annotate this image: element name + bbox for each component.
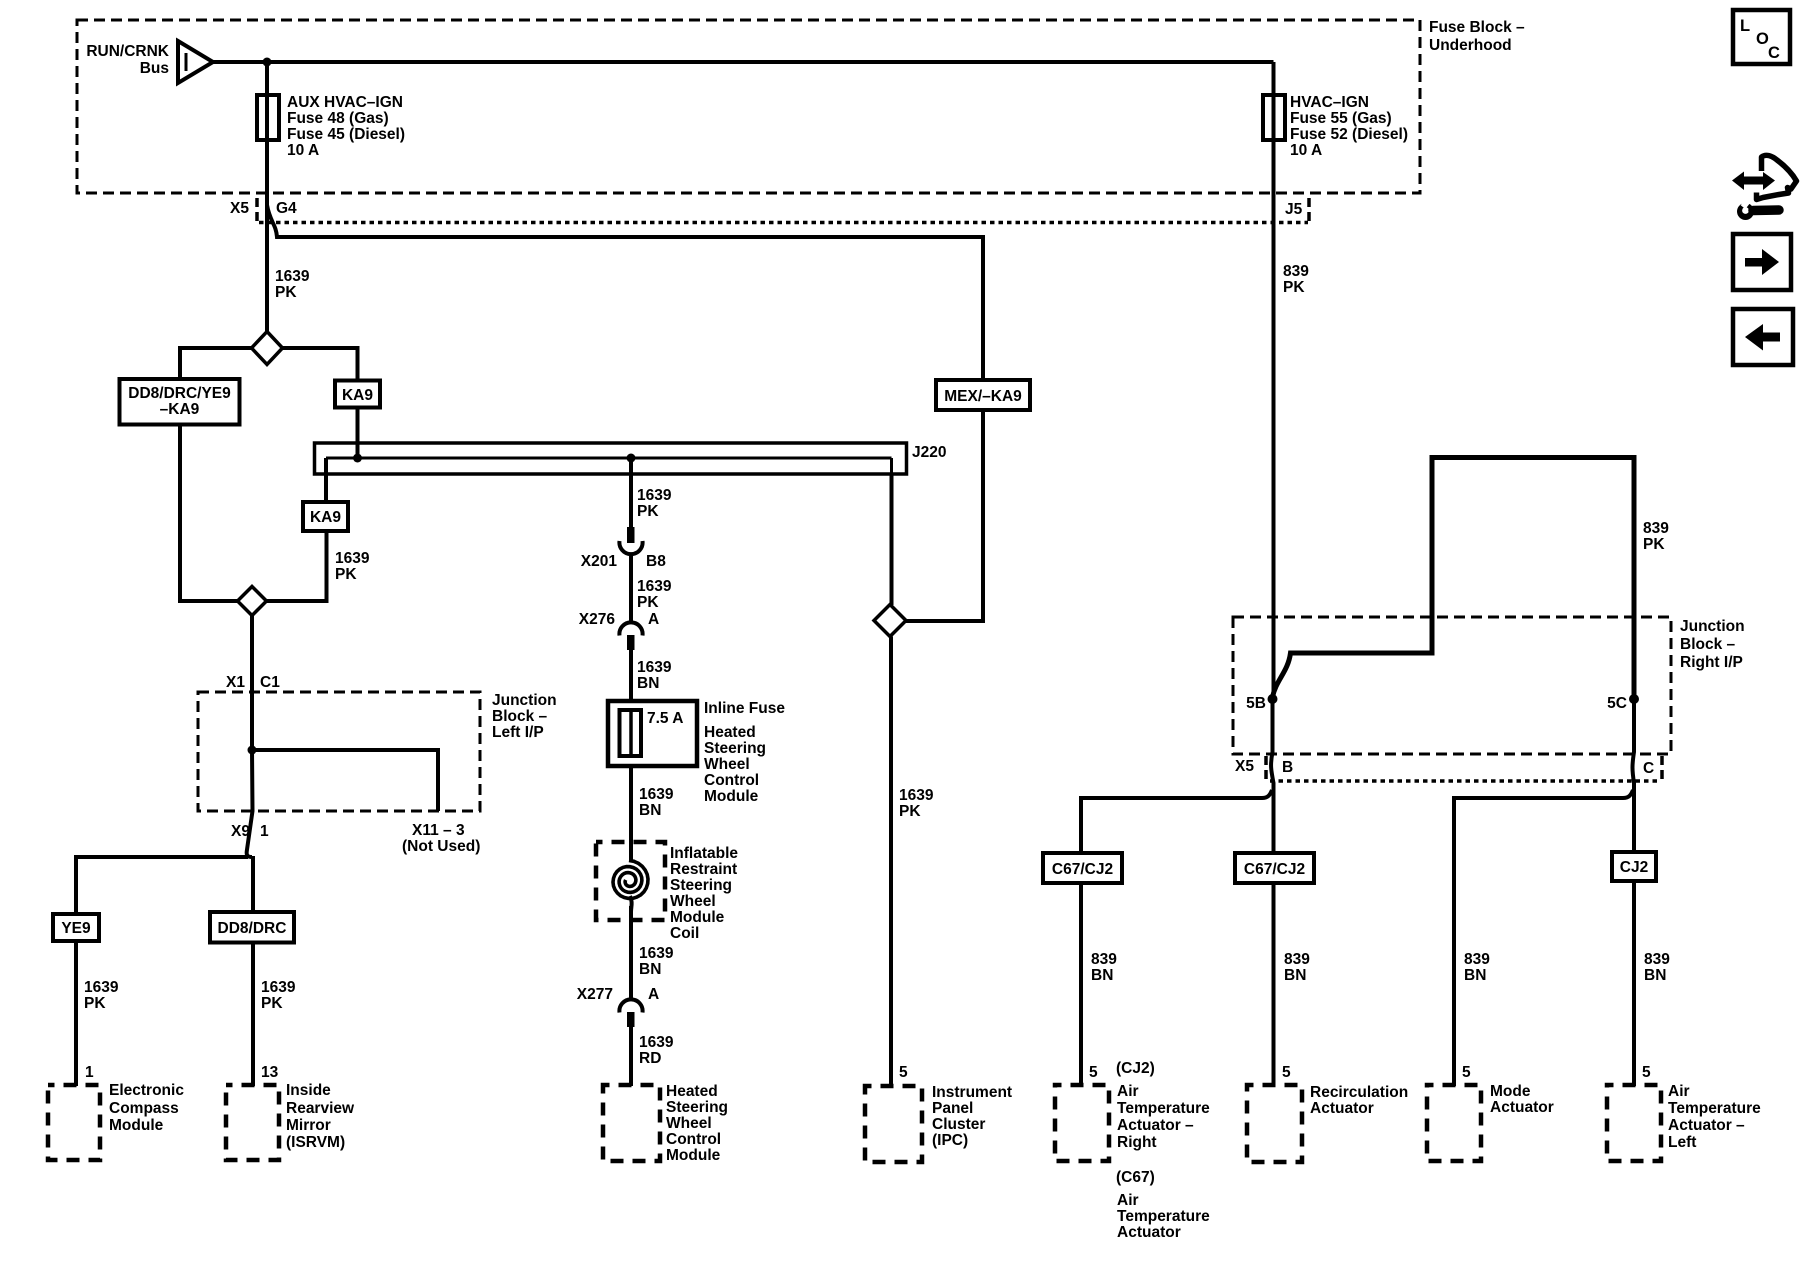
svg-text:PK: PK <box>335 566 357 583</box>
junction block - right I/P (dashed box) <box>1233 617 1745 754</box>
LOC nav box <box>1733 10 1790 64</box>
svg-text:PK: PK <box>637 594 659 611</box>
svg-text:Actuator: Actuator <box>1310 1100 1374 1117</box>
svg-text:X201: X201 <box>581 553 618 570</box>
svg-text:Right: Right <box>1117 1134 1157 1151</box>
option box YE9 <box>53 914 99 941</box>
svg-text:Fuse 52 (Diesel): Fuse 52 (Diesel) <box>1290 126 1408 143</box>
svg-text:DD8/DRC: DD8/DRC <box>218 920 287 937</box>
svg-text:CJ2: CJ2 <box>1620 859 1648 876</box>
connector J5 labels <box>1285 198 1309 223</box>
svg-text:C: C <box>1643 760 1654 777</box>
svg-text:1639: 1639 <box>639 945 674 962</box>
svg-text:C: C <box>1768 44 1780 62</box>
svg-text:G4: G4 <box>276 200 297 217</box>
svg-text:KA9: KA9 <box>310 509 341 526</box>
Electronic Compass Module (dashed box) <box>48 1082 184 1160</box>
svg-text:1639: 1639 <box>637 487 672 504</box>
svg-text:1: 1 <box>260 823 269 840</box>
svg-text:Module: Module <box>704 788 759 805</box>
svg-text:1639: 1639 <box>275 268 310 285</box>
svg-text:Control: Control <box>704 772 759 789</box>
splice diamond (IPC column) <box>874 605 906 637</box>
svg-text:BN: BN <box>1464 967 1486 984</box>
wire: 839 PK from J5 down to 5B <box>1274 140 1310 697</box>
wire: DD8 box down to lower splice <box>180 425 238 602</box>
node: bus tap junction <box>263 58 272 67</box>
svg-text:C67/CJ2: C67/CJ2 <box>1244 861 1305 878</box>
svg-text:1: 1 <box>85 1064 94 1081</box>
svg-text:–KA9: –KA9 <box>160 401 200 418</box>
svg-text:Actuator: Actuator <box>1490 1099 1554 1116</box>
svg-text:Inline Fuse: Inline Fuse <box>704 700 785 717</box>
svg-text:A: A <box>648 986 659 1003</box>
svg-text:Control: Control <box>666 1131 721 1148</box>
connector X5 / B / C labels <box>1235 756 1662 781</box>
wire: 1639 PK from J220 middle tap <box>631 458 672 528</box>
svg-text:5: 5 <box>1282 1064 1291 1081</box>
svg-text:Heated: Heated <box>704 724 756 741</box>
svg-text:Left: Left <box>1668 1134 1696 1151</box>
svg-text:YE9: YE9 <box>61 920 91 937</box>
svg-text:5: 5 <box>899 1064 908 1081</box>
svg-text:7.5 A: 7.5 A <box>647 710 683 727</box>
connector X276 A (female cup / male bar) <box>579 611 659 650</box>
svg-text:Inside: Inside <box>286 1082 331 1099</box>
svg-text:BN: BN <box>639 802 661 819</box>
wire: splice down to X1/C1 <box>250 616 254 751</box>
Instrument Panel Cluster (dashed box) <box>865 1084 1012 1162</box>
svg-text:839: 839 <box>1091 951 1117 968</box>
wire: diamond right branch to KA9 box <box>283 348 358 381</box>
svg-text:1639: 1639 <box>639 786 674 803</box>
svg-text:5: 5 <box>1462 1064 1471 1081</box>
svg-text:Recirculation: Recirculation <box>1310 1084 1408 1101</box>
wire: 839 BN to ATA-left <box>1634 881 1670 1086</box>
svg-text:Wheel: Wheel <box>670 893 716 910</box>
svg-text:5: 5 <box>1089 1064 1098 1081</box>
svg-text:Coil: Coil <box>670 925 699 942</box>
wire: diamond left branch to DD8 box <box>180 348 252 379</box>
svg-text:Mirror: Mirror <box>286 1117 331 1134</box>
svg-text:Module: Module <box>670 909 725 926</box>
svg-text:Air: Air <box>1117 1083 1139 1100</box>
svg-text:Instrument: Instrument <box>932 1084 1012 1101</box>
svg-text:Wheel: Wheel <box>704 756 750 773</box>
wire: 839 BN to mode actuator <box>1462 951 1490 1081</box>
Air Temperature Actuator - Left (dashed box) <box>1607 1083 1761 1161</box>
wire: 839 BN to ATA-right <box>1081 883 1117 1086</box>
svg-text:1639: 1639 <box>637 578 672 595</box>
svg-text:Restraint: Restraint <box>670 861 737 878</box>
wire: 1639 PK to IPC <box>891 637 934 1088</box>
svg-text:X1: X1 <box>226 674 245 691</box>
svg-text:Temperature: Temperature <box>1117 1100 1210 1117</box>
RUN/CRNK Bus source triangle <box>86 41 213 83</box>
svg-text:5: 5 <box>1642 1064 1651 1081</box>
fuse HVAC-IGN <box>1263 62 1408 159</box>
svg-text:X276: X276 <box>579 611 616 628</box>
fuse block - underhood (dashed box) <box>77 19 1525 193</box>
svg-text:X5: X5 <box>1235 758 1254 775</box>
svg-text:Steering: Steering <box>670 877 732 894</box>
svg-text:PK: PK <box>275 284 297 301</box>
svg-text:Module: Module <box>666 1147 721 1164</box>
wire: 1639 BN above inline fuse <box>631 650 672 710</box>
svg-text:A: A <box>648 611 659 628</box>
wire: G4 branch to MEX column <box>267 205 983 380</box>
svg-text:PK: PK <box>84 995 106 1012</box>
fuse AUX HVAC-IGN <box>257 94 405 159</box>
wire: 1639 PK A between X201 and X276 <box>631 554 672 622</box>
svg-text:Fuse 48 (Gas): Fuse 48 (Gas) <box>287 110 389 127</box>
svg-text:Right I/P: Right I/P <box>1680 654 1743 671</box>
wire: 1639 PK below G4 <box>267 208 310 331</box>
svg-text:Temperature: Temperature <box>1668 1100 1761 1117</box>
svg-text:BN: BN <box>1091 967 1113 984</box>
Inside Rearview Mirror (dashed box) <box>226 1082 355 1160</box>
option box C67/CJ2 (left) <box>1043 853 1122 883</box>
svg-text:PK: PK <box>637 503 659 520</box>
svg-text:L: L <box>1740 17 1750 35</box>
svg-text:839: 839 <box>1644 951 1670 968</box>
junction block - left I/P (dashed box) <box>198 692 557 811</box>
svg-text:Temperature: Temperature <box>1117 1208 1210 1225</box>
svg-text:Heated: Heated <box>666 1083 718 1100</box>
svg-text:1639: 1639 <box>899 787 934 804</box>
svg-text:X9: X9 <box>231 823 250 840</box>
svg-text:Fuse Block –: Fuse Block – <box>1429 19 1525 36</box>
wire: KA9 to J220 bus <box>356 408 360 459</box>
wire: main down through X9 <box>247 750 253 857</box>
svg-text:B: B <box>1282 759 1293 776</box>
svg-text:B8: B8 <box>646 553 666 570</box>
svg-text:Air: Air <box>1668 1083 1690 1100</box>
harness routing icon (double arrow, outline, wrench) <box>1732 155 1797 220</box>
option box DD8/DRC/YE9 -KA9 <box>120 379 240 425</box>
nav left-arrow box <box>1733 309 1793 365</box>
svg-text:PK: PK <box>899 803 921 820</box>
svg-text:Bus: Bus <box>140 60 169 77</box>
nav right-arrow box <box>1733 234 1791 290</box>
svg-text:839: 839 <box>1284 951 1310 968</box>
svg-text:Electronic: Electronic <box>109 1082 184 1099</box>
svg-text:Junction: Junction <box>492 692 557 709</box>
wire: 5B bridge over to 5C <box>1273 458 1635 698</box>
svg-text:BN: BN <box>639 961 661 978</box>
connector row dotted line (X5 plane) <box>259 221 1308 225</box>
svg-text:1639: 1639 <box>335 550 370 567</box>
svg-text:Actuator: Actuator <box>1117 1224 1181 1241</box>
svg-text:Junction: Junction <box>1680 618 1745 635</box>
node 5C <box>1629 694 1639 704</box>
node: KA9 wire to J220 <box>353 454 362 463</box>
svg-text:1639: 1639 <box>261 979 296 996</box>
svg-text:Module: Module <box>109 1117 164 1134</box>
svg-text:(C67): (C67) <box>1116 1169 1155 1186</box>
svg-text:(IPC): (IPC) <box>932 1132 968 1149</box>
svg-text:5B: 5B <box>1246 695 1266 712</box>
svg-text:BN: BN <box>1644 967 1666 984</box>
svg-text:Mode: Mode <box>1490 1083 1531 1100</box>
wire: 1639 PK YE9 to ECM <box>76 941 119 1086</box>
option box DD8/DRC <box>210 912 294 943</box>
J220 splice pack bus <box>315 443 947 474</box>
svg-text:C1: C1 <box>260 674 280 691</box>
svg-text:5C: 5C <box>1607 695 1627 712</box>
option box KA9 (lower) <box>303 502 348 531</box>
svg-text:13: 13 <box>261 1064 279 1081</box>
option box CJ2 <box>1612 852 1656 881</box>
wire: J220 right leg down to splice <box>890 474 894 605</box>
wire: left fuse drop <box>265 62 269 208</box>
svg-text:839: 839 <box>1464 951 1490 968</box>
svg-text:J5: J5 <box>1285 201 1303 218</box>
svg-text:C67/CJ2: C67/CJ2 <box>1052 861 1113 878</box>
svg-text:X11 – 3: X11 – 3 <box>412 822 465 839</box>
connector row dotted line (X5 bottom plane) <box>1270 779 1660 783</box>
wire: 1639 RD to HSWCM <box>631 1027 674 1086</box>
option box C67/CJ2 (right) <box>1235 853 1314 883</box>
inflatable restraint steering wheel module coil (dashed box with spiral) <box>596 842 738 946</box>
Mode Actuator (dashed box) <box>1427 1083 1554 1161</box>
svg-text:839: 839 <box>1283 263 1309 280</box>
svg-text:Block –: Block – <box>492 708 548 725</box>
svg-text:Inflatable: Inflatable <box>670 845 738 862</box>
svg-text:HVAC–IGN: HVAC–IGN <box>1290 94 1369 111</box>
svg-text:BN: BN <box>1284 967 1306 984</box>
svg-text:MEX/–KA9: MEX/–KA9 <box>944 388 1022 405</box>
splice S220 diamond (upper left) <box>252 332 283 365</box>
wire: RUN/CRNK bus horizontal <box>213 60 1274 64</box>
svg-text:PK: PK <box>1283 279 1305 296</box>
svg-text:(Not Used): (Not Used) <box>402 838 480 855</box>
inline fuse 7.5 A <box>608 700 785 805</box>
svg-text:Actuator –: Actuator – <box>1668 1117 1745 1134</box>
wire: 1639 PK from KA9 lower to splice <box>267 531 370 601</box>
wire: B down and branch to ATA-right <box>1271 699 1273 853</box>
svg-text:1639: 1639 <box>637 659 672 676</box>
Air Temperature Actuator - Right (dashed box) <box>1055 1060 1210 1241</box>
option box MEX/-KA9 <box>936 380 1030 410</box>
svg-text:PK: PK <box>1643 536 1665 553</box>
connector X201 B8 (male bar / female cup) <box>581 527 666 570</box>
node 5B <box>1268 694 1278 704</box>
svg-text:(ISRVM): (ISRVM) <box>286 1134 345 1151</box>
svg-text:PK: PK <box>261 995 283 1012</box>
Heated Steering Wheel Control Module (dashed box) <box>603 1083 728 1164</box>
node: junction inside left I/P block <box>248 746 257 755</box>
svg-text:Fuse 55 (Gas): Fuse 55 (Gas) <box>1290 110 1392 127</box>
node: middle column tap on J220 <box>627 454 636 463</box>
svg-text:X277: X277 <box>577 986 613 1003</box>
svg-text:Actuator –: Actuator – <box>1117 1117 1194 1134</box>
svg-text:Left I/P: Left I/P <box>492 724 544 741</box>
wire: 839 BN to recirculation actuator <box>1274 883 1311 1085</box>
Recirculation Actuator (dashed box) <box>1247 1084 1408 1162</box>
svg-text:Steering: Steering <box>704 740 766 757</box>
svg-text:Wheel: Wheel <box>666 1115 712 1132</box>
svg-text:Fuse 45 (Diesel): Fuse 45 (Diesel) <box>287 126 405 143</box>
svg-text:RUN/CRNK: RUN/CRNK <box>86 43 169 60</box>
svg-text:Air: Air <box>1117 1192 1139 1209</box>
splice diamond (lower left) <box>238 587 267 616</box>
wire: 1639 PK DD8/DRC to ISRVM <box>253 943 296 1087</box>
wire: 839 PK label on bridge <box>1643 520 1669 553</box>
wire: branch to YE9 <box>76 857 248 914</box>
svg-text:Panel: Panel <box>932 1100 973 1117</box>
wire: C down and branch to mode actuator <box>1633 699 1635 852</box>
svg-text:Block –: Block – <box>1680 636 1736 653</box>
svg-text:Cluster: Cluster <box>932 1116 985 1133</box>
connector X1 / C1 labels <box>226 674 280 691</box>
svg-text:1639: 1639 <box>84 979 119 996</box>
svg-text:10 A: 10 A <box>287 142 319 159</box>
svg-text:Underhood: Underhood <box>1429 37 1512 54</box>
svg-text:839: 839 <box>1643 520 1669 537</box>
svg-text:Rearview: Rearview <box>286 1100 355 1117</box>
svg-text:J220: J220 <box>912 444 946 461</box>
wire: 1639 BN below coil <box>631 906 674 1000</box>
svg-text:10 A: 10 A <box>1290 142 1322 159</box>
svg-text:DD8/DRC/YE9: DD8/DRC/YE9 <box>128 385 231 402</box>
wire: 1639 BN below inline fuse <box>631 766 674 861</box>
svg-text:X5: X5 <box>230 200 249 217</box>
wire: J220 left leg down to KA9 lower box <box>324 458 328 502</box>
svg-text:1639: 1639 <box>639 1034 674 1051</box>
svg-text:AUX HVAC–IGN: AUX HVAC–IGN <box>287 94 403 111</box>
svg-text:BN: BN <box>637 675 659 692</box>
wire: X11-3 stub (not used) <box>252 750 438 811</box>
svg-text:RD: RD <box>639 1050 661 1067</box>
wire: MEX box down to IPC splice <box>906 410 983 621</box>
connector X5 / G4 labels <box>230 198 297 223</box>
svg-text:(CJ2): (CJ2) <box>1116 1060 1155 1077</box>
option box KA9 (upper) <box>335 381 380 408</box>
svg-text:Steering: Steering <box>666 1099 728 1116</box>
connector X9 / 1 labels <box>231 822 480 855</box>
svg-text:KA9: KA9 <box>342 387 373 404</box>
connector X277 A <box>577 986 659 1027</box>
svg-text:Compass: Compass <box>109 1100 179 1117</box>
